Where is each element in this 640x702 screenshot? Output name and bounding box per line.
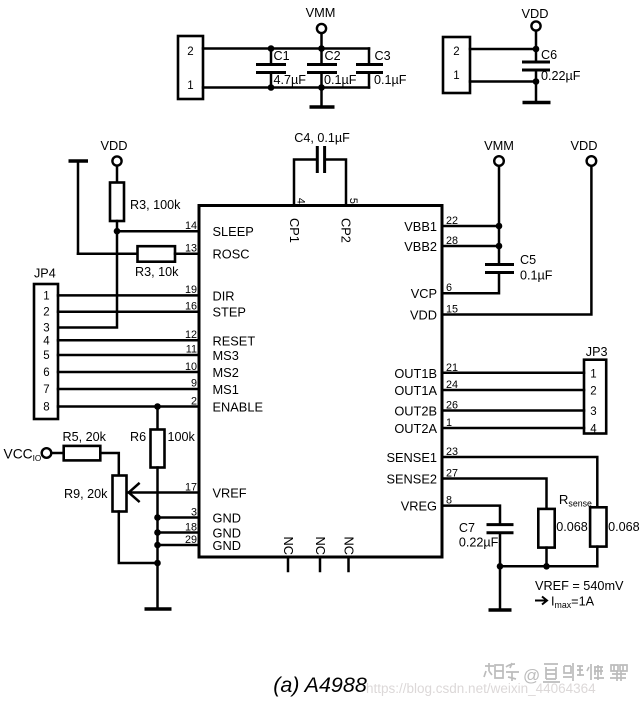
wire R5 to pot <box>100 453 119 476</box>
svg-text:OUT1B: OUT1B <box>394 366 437 381</box>
svg-text:JP4: JP4 <box>34 267 56 281</box>
svg-text:0.22µF: 0.22µF <box>541 69 581 83</box>
capacitor C4 <box>294 131 350 206</box>
capacitor C6 <box>522 31 581 85</box>
wiper arrow <box>129 484 139 502</box>
wire pin1 rail <box>470 80 536 83</box>
potentiometer R9 20k <box>113 476 127 512</box>
svg-text:5: 5 <box>347 198 359 204</box>
wire bottom rail <box>203 86 369 89</box>
svg-text:OUT1A: OUT1A <box>394 383 437 398</box>
wire T-bar stem <box>77 163 80 254</box>
resistor Rsense right 0.068 <box>590 507 606 546</box>
node ENABLE junction <box>154 403 161 410</box>
wire SLEEP net down to JP4 pin3 <box>58 231 117 327</box>
vcc T-bar <box>69 159 89 163</box>
ground (top-right block) <box>535 82 538 102</box>
wire SENSE2 <box>442 479 547 509</box>
svg-text:STEP: STEP <box>213 305 246 320</box>
svg-text:R9, 20k: R9, 20k <box>64 487 108 501</box>
svg-text:C2: C2 <box>325 49 341 63</box>
svg-text:RESET: RESET <box>213 333 256 348</box>
svg-text:11: 11 <box>186 344 197 356</box>
wire VDD to R3 <box>116 166 119 183</box>
svg-text:6: 6 <box>43 367 49 379</box>
connector X2 <box>443 37 470 93</box>
svg-text:NC: NC <box>313 537 328 555</box>
wire VMM down <box>498 166 501 263</box>
svg-text:1: 1 <box>187 80 193 92</box>
svg-text:C1: C1 <box>274 49 290 63</box>
svg-text:VBB1: VBB1 <box>404 219 437 234</box>
svg-text:0.068: 0.068 <box>608 520 640 534</box>
svg-text:R6: R6 <box>130 430 146 444</box>
annotation Imax <box>535 597 547 605</box>
svg-text:0.068: 0.068 <box>556 520 588 534</box>
svg-text:JP3: JP3 <box>586 345 608 359</box>
svg-text:SENSE2: SENSE2 <box>386 472 437 487</box>
svg-text:OUT2B: OUT2B <box>394 404 437 419</box>
wire VREF <box>129 491 199 494</box>
svg-text:SENSE1: SENSE1 <box>386 450 437 465</box>
svg-text:C6: C6 <box>541 48 557 62</box>
wire OUT2B <box>442 409 584 412</box>
connector X1 <box>178 36 203 99</box>
wire JP4.2 STEP <box>58 310 199 313</box>
svg-text:1: 1 <box>453 70 459 82</box>
svg-text:VMM: VMM <box>484 138 514 153</box>
svg-text:VDD: VDD <box>100 138 127 153</box>
svg-text:VDD: VDD <box>410 308 437 323</box>
wire VMM stem <box>320 33 323 48</box>
wire GND pin 3 <box>158 516 200 519</box>
resistor R5 20k <box>64 446 101 461</box>
svg-text:4.7µF: 4.7µF <box>274 73 307 87</box>
node gnd junctions <box>154 514 161 521</box>
svg-text:VREF = 540mV: VREF = 540mV <box>535 579 624 593</box>
NC pin stub 2 <box>319 557 322 571</box>
wire R6 bottom / gnd net <box>156 468 159 608</box>
svg-text:R5, 20k: R5, 20k <box>63 430 107 444</box>
svg-text:GND: GND <box>213 511 241 526</box>
svg-text:CP1: CP1 <box>287 218 302 243</box>
wire C7 bottom rail <box>500 534 597 566</box>
wire SENSE1 <box>442 457 597 507</box>
wire OUT1B <box>442 372 584 375</box>
watermark zhihu <box>484 663 627 685</box>
resistor R3 100k <box>110 183 124 222</box>
wire ROSC left segment <box>78 252 138 255</box>
wire top rail <box>203 47 369 50</box>
ground (top-left block) <box>320 88 323 106</box>
resistor R6 100k <box>156 407 159 430</box>
svg-text:R3, 10k: R3, 10k <box>135 265 179 279</box>
right pin numbers <box>446 215 458 507</box>
wire VDD down to pin15 <box>442 166 591 315</box>
NC pin stub 1 <box>287 557 290 571</box>
wire JP4.1 DIR <box>58 294 199 297</box>
right pin names <box>386 219 437 514</box>
svg-text:0.1µF: 0.1µF <box>324 73 357 87</box>
svg-text:https://blog.csdn.net/weixin_4: https://blog.csdn.net/weixin_44064364 <box>366 681 596 696</box>
capacitor C7 <box>487 523 514 526</box>
svg-text:4: 4 <box>590 424 597 436</box>
node VBB junctions <box>496 223 503 230</box>
ground (right) <box>499 566 502 608</box>
wire JP4.5 MS3 <box>58 354 199 357</box>
svg-text:OUT2A: OUT2A <box>394 421 437 436</box>
svg-text:NC: NC <box>341 537 356 555</box>
wire JP4.7 MS1 <box>58 388 199 391</box>
svg-text:3: 3 <box>590 406 596 418</box>
svg-text:1: 1 <box>43 290 49 302</box>
wire pot bottom <box>119 512 158 564</box>
svg-text:NC: NC <box>281 537 296 555</box>
wire R3 bottom <box>116 221 119 231</box>
svg-text:9: 9 <box>191 378 197 390</box>
svg-text:CP2: CP2 <box>339 218 354 243</box>
svg-text:4: 4 <box>43 335 50 347</box>
wire JP4.6 MS2 <box>58 371 199 374</box>
svg-text:8: 8 <box>43 402 49 414</box>
svg-text:2: 2 <box>43 307 49 319</box>
svg-text:0.1µF: 0.1µF <box>374 73 407 87</box>
wire VBB2 <box>442 245 499 248</box>
svg-text:4: 4 <box>295 198 307 204</box>
svg-text:5: 5 <box>43 350 49 362</box>
svg-text:(a) A4988: (a) A4988 <box>273 673 367 697</box>
svg-text:MS2: MS2 <box>213 365 239 380</box>
wire pin2 rail <box>470 48 536 51</box>
wire GND pin 29 <box>158 544 200 547</box>
wire sense bottoms <box>545 548 548 567</box>
capacitor C5 <box>485 263 514 266</box>
svg-text:0.1µF: 0.1µF <box>520 269 553 283</box>
capacitor C2 <box>307 45 357 91</box>
svg-text:VDD: VDD <box>570 138 597 153</box>
svg-text:@: @ <box>523 666 540 685</box>
resistor Rsense left 0.068 <box>538 509 554 548</box>
svg-text:7: 7 <box>43 384 49 396</box>
svg-text:2: 2 <box>453 46 459 58</box>
wire C5 to VCP <box>442 274 499 293</box>
svg-text:3: 3 <box>43 323 49 335</box>
svg-text:C7: C7 <box>459 521 475 535</box>
svg-text:ENABLE: ENABLE <box>213 400 264 415</box>
svg-text:VDD: VDD <box>521 6 548 21</box>
wire ROSC right segment <box>175 252 199 255</box>
wire VCCIO to R5 <box>52 452 64 455</box>
wire VBB1 <box>442 225 499 228</box>
svg-text:100k: 100k <box>168 430 196 444</box>
svg-text:SLEEP: SLEEP <box>213 224 254 239</box>
svg-text:VREF: VREF <box>213 486 247 501</box>
wire OUT1A <box>442 389 584 392</box>
left pin names <box>213 224 264 553</box>
svg-text:MS1: MS1 <box>213 382 239 397</box>
svg-text:VMM: VMM <box>306 5 336 20</box>
node SLEEP junction <box>114 228 121 235</box>
svg-text:C4, 0.1µF: C4, 0.1µF <box>294 131 350 145</box>
svg-text:MS3: MS3 <box>213 348 239 363</box>
svg-text:VCP: VCP <box>411 286 437 301</box>
wire OUT2A <box>442 427 584 430</box>
wire JP4.4 RESET <box>58 339 199 342</box>
svg-text:C5: C5 <box>520 253 536 267</box>
svg-text:1: 1 <box>590 368 596 380</box>
wire VREG <box>442 506 500 523</box>
capacitor C3 <box>356 49 407 88</box>
svg-text:0.22µF: 0.22µF <box>459 536 499 550</box>
NC pin stub 3 <box>347 557 350 571</box>
svg-text:2: 2 <box>590 386 596 398</box>
svg-text:VBB2: VBB2 <box>404 239 437 254</box>
svg-text:ROSC: ROSC <box>213 247 250 262</box>
wire GND pin 18 <box>158 531 200 534</box>
capacitor C1 <box>256 45 306 91</box>
resistor R3 10k <box>138 246 176 262</box>
wire SLEEP <box>117 230 199 233</box>
ground (left) <box>145 607 172 611</box>
svg-text:DIR: DIR <box>213 288 235 303</box>
svg-text:2: 2 <box>187 46 193 58</box>
svg-text:GND: GND <box>213 538 241 553</box>
left pin numbers <box>185 220 197 546</box>
wire JP4.8 ENABLE <box>58 405 199 408</box>
svg-text:VREG: VREG <box>401 499 437 514</box>
svg-text:C3: C3 <box>375 49 391 63</box>
node bottom rail junctions <box>497 563 504 570</box>
svg-text:R3, 100k: R3, 100k <box>130 198 181 212</box>
